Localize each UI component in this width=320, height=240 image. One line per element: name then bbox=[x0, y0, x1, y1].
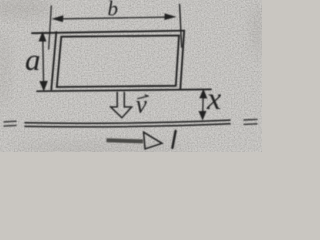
svg-text:b: b bbox=[108, 0, 119, 21]
svg-text:v: v bbox=[136, 92, 148, 119]
svg-text:a: a bbox=[25, 42, 41, 77]
svg-text:x: x bbox=[206, 80, 221, 116]
